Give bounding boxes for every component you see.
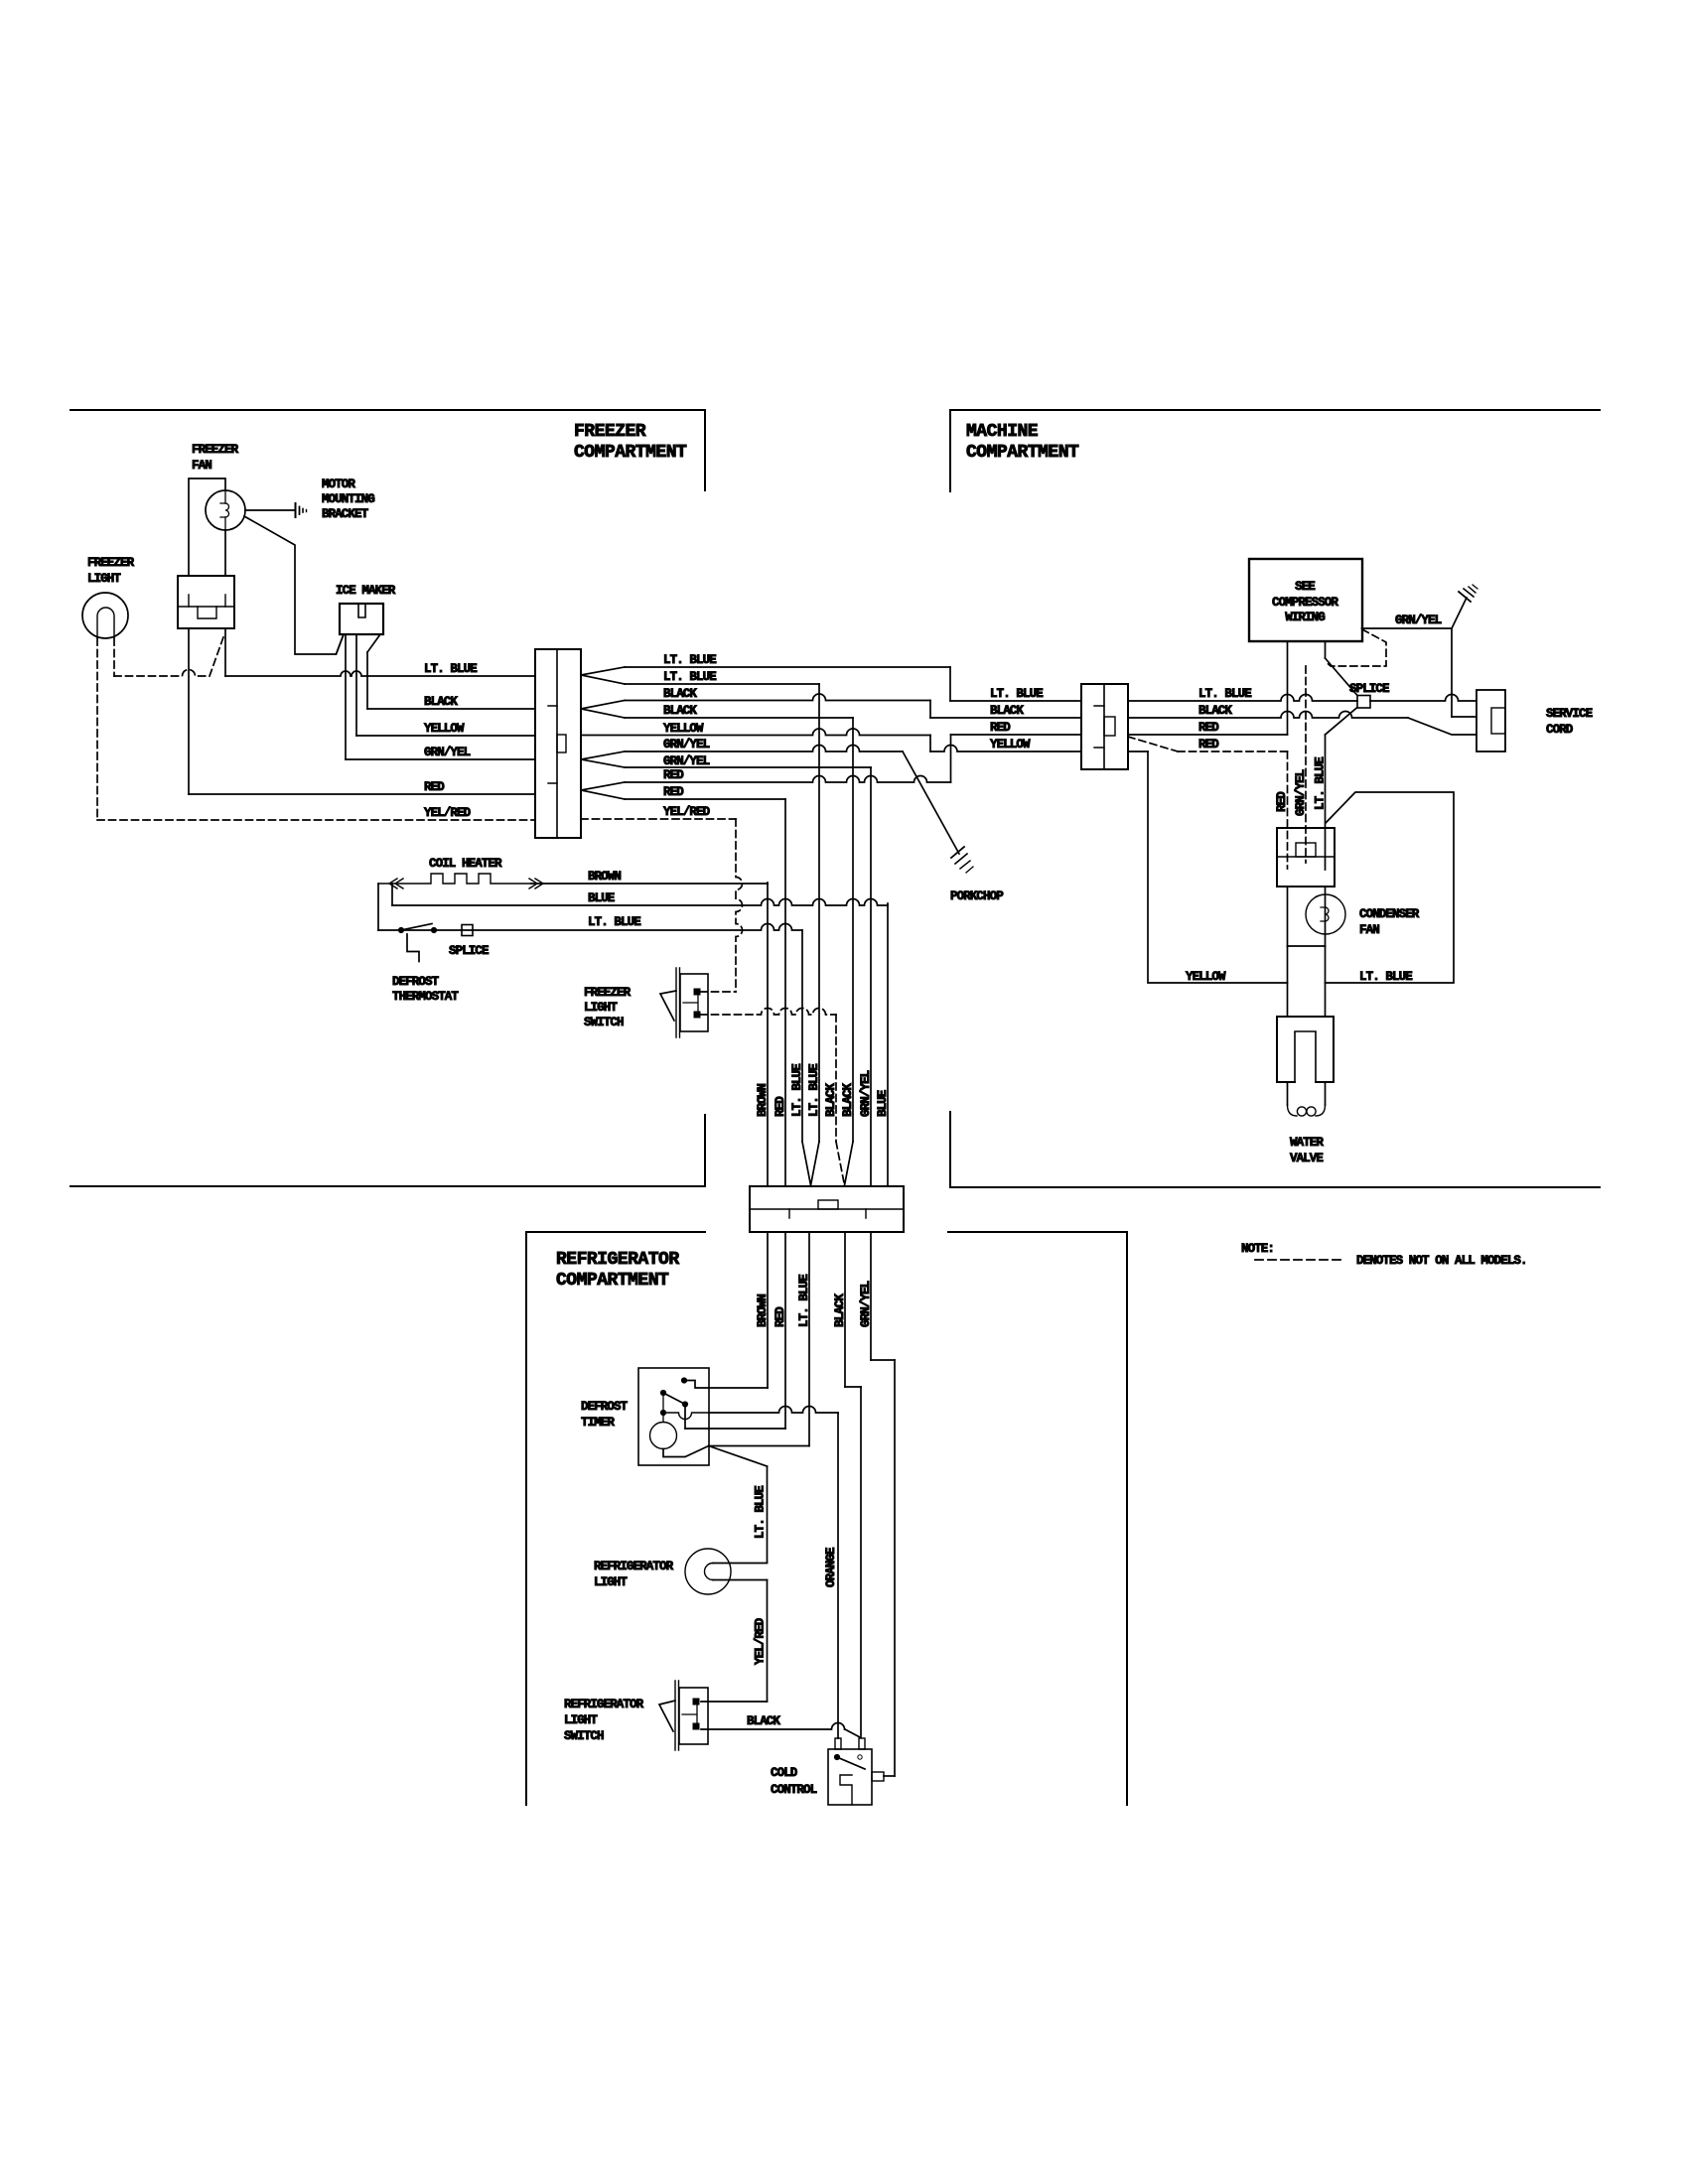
wire BLUE vertical [887,903,889,1186]
svg-text:COIL HEATER: COIL HEATER [429,857,502,871]
svg-text:BROWN: BROWN [588,870,621,884]
svg-text:BROWN: BROWN [756,1295,770,1327]
wire motor frame to ice maker ground pin [244,516,344,654]
svg-text:NOTE:: NOTE: [1241,1242,1274,1256]
dashed GRN/YEL from compressor [1306,629,1386,863]
svg-text:YELLOW: YELLOW [424,722,465,736]
wire ORANGE [837,1413,839,1738]
wire timer contact to ORANGE [663,1407,838,1420]
label FREEZER LIGHT [87,556,135,586]
cold control [828,1738,884,1805]
label COLD CONTROL [771,1766,817,1797]
porkchop ground wire [903,751,959,854]
machine YELLOW wire down [1148,751,1288,983]
ice maker pin to YELLOW row [355,634,357,736]
freezer light switch [660,968,708,1037]
svg-text:LT. BLUE: LT. BLUE [754,1486,768,1539]
wire compressor to splice diagonal [1326,641,1358,696]
svg-text:BLACK: BLACK [990,704,1024,718]
label REFRIGERATOR LIGHT [594,1560,674,1589]
freezer fan connector block [178,576,234,628]
machine RED row [1128,734,1288,736]
machine connector right labels [1198,687,1251,751]
machine dashed RED to condenser [1128,737,1288,869]
svg-text:ORANGE: ORANGE [824,1548,838,1587]
svg-text:GRN/YEL: GRN/YEL [1395,614,1442,627]
defrost timer contacts [660,1378,709,1429]
wire LT. BLUE coil row [378,924,802,930]
svg-text:RED: RED [1198,738,1219,751]
svg-text:BLACK: BLACK [663,704,697,718]
wire motor to mounting bracket [245,509,294,511]
water valve coil [1288,1082,1326,1116]
svg-text:CONTROL: CONTROL [771,1783,817,1797]
freezer compartment border [70,410,705,1186]
label MOTOR MOUNTING BRACKET [322,478,374,521]
svg-text:CONDENSER: CONDENSER [1359,907,1420,921]
svg-text:FAN: FAN [1359,923,1379,937]
wire GRN/YEL lower row [625,766,871,768]
condenser fan return wire [1288,887,1326,946]
svg-text:BLUE: BLUE [588,891,615,905]
svg-text:LT. BLUE: LT. BLUE [663,653,716,667]
svg-text:WATER: WATER [1290,1136,1324,1150]
ice maker pin to GRN/YEL row [345,634,347,759]
svg-text:BLUE: BLUE [876,1090,890,1117]
svg-text:FREEZER: FREEZER [574,422,646,442]
svg-text:DEFROST: DEFROST [392,975,440,989]
wire BLACK dashed vertical [836,1015,845,1185]
wire YELLOW row to machine [581,729,1148,751]
condenser wire labels [1275,757,1328,816]
ice maker ground pin [337,634,345,654]
svg-text:YELLOW: YELLOW [663,722,704,736]
svg-text:RED: RED [1275,791,1289,812]
svg-text:LT. BLUE: LT. BLUE [1359,970,1412,984]
machine bulkhead connector [1081,684,1128,769]
svg-text:LT. BLUE: LT. BLUE [797,1275,811,1327]
wire BLACK pair flag [581,701,625,719]
wire BLUE row [392,884,888,905]
wire splice to condenser LT. BLUE [1326,708,1358,871]
label DEFROST THERMOSTAT [392,975,459,1004]
freezer light circle [82,593,128,638]
wire RED row left [189,793,535,795]
svg-text:SERVICE: SERVICE [1546,707,1593,721]
svg-text:ICE MAKER: ICE MAKER [336,584,396,598]
svg-text:BLACK: BLACK [663,687,697,701]
svg-text:LIGHT: LIGHT [584,1001,618,1015]
labels YELLOW / LT. BLUE bottom [1186,970,1412,984]
svg-text:LT. BLUE: LT. BLUE [663,670,716,684]
wire YEL/RED light to switch [701,1580,768,1703]
svg-text:RED: RED [1198,721,1219,735]
svg-text:RED: RED [663,768,684,782]
svg-text:SPLICE: SPLICE [449,944,489,958]
svg-text:DEFROST: DEFROST [581,1400,629,1414]
wire LT. BLUE vertical 2 [811,684,820,1185]
wire GRN/YEL pair flag [581,751,625,767]
svg-text:FREEZER: FREEZER [87,556,135,570]
dashed wire freezer light to YEL/RED row [96,638,98,820]
svg-text:GRN/YEL: GRN/YEL [663,754,710,768]
refrigerator compartment border [526,1232,1127,1805]
svg-text:DENOTES NOT ON ALL MODELS.: DENOTES NOT ON ALL MODELS. [1356,1254,1527,1268]
wire RED vertical [784,799,786,1186]
service cord block [1477,690,1505,751]
water valve wires [1288,946,1326,1017]
svg-text:RED: RED [663,785,684,799]
svg-text:VALVE: VALVE [1290,1152,1323,1165]
GRN/YEL wire to ground [1362,598,1468,628]
wire LT. BLUE row left [225,671,535,676]
svg-text:GRN/YEL: GRN/YEL [663,738,710,751]
wire GRN/YEL upper row to porkchop [625,746,903,752]
svg-text:GRN/YEL: GRN/YEL [424,746,471,759]
refrigerator light switch [659,1681,708,1750]
wire compressor to RED node [1287,641,1289,735]
note text [1241,1242,1527,1268]
ice maker pin to BLACK row [367,634,380,709]
wire YEL/RED dashed row [97,819,535,821]
svg-text:BLACK: BLACK [747,1714,780,1728]
svg-text:COMPRESSOR: COMPRESSOR [1272,596,1338,610]
label FREEZER LIGHT SWITCH [584,986,632,1029]
ice maker block [340,604,383,634]
svg-text:REFRIGERATOR: REFRIGERATOR [564,1698,644,1711]
label DEFROST TIMER [581,1400,629,1430]
coil heater element row BROWN [378,874,768,888]
svg-text:YELLOW: YELLOW [990,738,1031,751]
wire GRN/YEL vertical [870,767,872,1186]
label FREEZER COMPARTMENT [574,422,687,463]
svg-text:REFRIGERATOR: REFRIGERATOR [594,1560,674,1573]
svg-text:LT. BLUE: LT. BLUE [990,687,1043,701]
svg-text:SPLICE: SPLICE [1349,682,1389,696]
svg-text:BLACK: BLACK [824,1083,838,1117]
label SERVICE CORD [1546,707,1593,737]
wire GRN/YEL row left [346,758,535,760]
condenser outline LT. BLUE loop [1326,792,1455,983]
svg-text:RED: RED [774,1306,787,1327]
dashed YEL/RED wire down to freezer light switch [700,819,743,992]
freezer fan motor circle [206,490,245,530]
machine connector left labels [990,687,1043,751]
svg-text:BLACK: BLACK [841,1083,855,1117]
service cord ground symbol [1459,585,1477,602]
svg-text:SWITCH: SWITCH [584,1016,624,1029]
svg-text:YEL/RED: YEL/RED [424,806,472,820]
wire LT. BLUE to defrost timer motor [709,1232,809,1446]
see compressor wiring box [1249,559,1362,641]
splice square [462,925,473,936]
label REFRIGERATOR LIGHT SWITCH [564,1698,644,1743]
svg-text:GRN/YEL: GRN/YEL [859,1070,873,1117]
svg-text:CORD: CORD [1546,723,1574,737]
svg-text:LIGHT: LIGHT [564,1713,598,1727]
svg-text:GRN/YEL: GRN/YEL [859,1281,873,1327]
porkchop ground symbol [951,847,973,873]
svg-text:FREEZER: FREEZER [584,986,632,1000]
machine compartment border [950,410,1600,1187]
svg-text:LIGHT: LIGHT [87,572,121,586]
label WATER VALVE [1290,1136,1324,1165]
svg-text:RED: RED [424,780,445,794]
wire RED to defrost timer [685,1232,785,1429]
svg-text:LT. BLUE: LT. BLUE [807,1064,821,1117]
wire BLACK switch to cold control [701,1723,860,1738]
wire LT. BLUE lower row [625,683,819,685]
svg-text:SWITCH: SWITCH [564,1729,604,1743]
wire YELLOW row left [356,735,535,737]
svg-text:LT. BLUE: LT. BLUE [1314,757,1328,810]
wire timer motor junction [663,1446,768,1467]
svg-text:LT. BLUE: LT. BLUE [1198,687,1251,701]
svg-text:LIGHT: LIGHT [594,1575,628,1589]
lower vertical wire labels [756,1275,873,1327]
svg-text:FREEZER: FREEZER [192,443,239,457]
wire GRN/YEL to service cord [1452,628,1477,717]
freezer fan motor loop wires [189,478,225,576]
dashed wire freezer light to fan connector (LT. BLUE) [114,634,224,676]
wire RED upper row to machine [625,735,1081,782]
wire LT. BLUE to refrigerator light [767,1466,769,1563]
wire BLACK row left [367,708,535,710]
wire LT. BLUE upper row to machine [625,667,1081,701]
label FREEZER FAN [192,443,239,473]
svg-text:MOTOR: MOTOR [322,478,355,491]
svg-text:LT. BLUE: LT. BLUE [424,662,477,676]
svg-text:COMPARTMENT: COMPARTMENT [574,443,687,463]
machine BLACK row to service cord [1128,712,1477,736]
wire BROWN to defrost timer [709,1232,768,1388]
label SEE COMPRESSOR WIRING [1272,580,1338,624]
refrigerator bulkhead connector [750,1186,904,1232]
svg-text:BRACKET: BRACKET [322,507,369,521]
svg-text:REFRIGERATOR: REFRIGERATOR [556,1250,679,1270]
condenser fan circle [1306,887,1345,946]
svg-text:PORKCHOP: PORKCHOP [950,889,1003,903]
freezer fan pin wire to RED row [188,628,190,794]
splice square [1357,696,1370,709]
wire LT. BLUE vertical 1 [802,930,811,1185]
svg-text:RED: RED [774,1096,787,1117]
defrost thermostat [398,924,436,962]
svg-text:RED: RED [990,721,1011,735]
condenser fan terminal block [1277,828,1335,887]
label REFRIGERATOR COMPARTMENT [556,1250,679,1291]
svg-text:LT. BLUE: LT. BLUE [790,1064,804,1117]
svg-text:MACHINE: MACHINE [966,422,1039,442]
vertical wire labels [756,1064,890,1117]
machine LT. BLUE row [1128,695,1477,702]
svg-text:BLACK: BLACK [424,695,458,709]
water valve connector [1277,1017,1334,1082]
svg-text:SEE: SEE [1295,580,1315,594]
svg-text:LT. BLUE: LT. BLUE [588,915,640,929]
svg-text:BLACK: BLACK [1198,704,1232,718]
svg-text:COMPARTMENT: COMPARTMENT [966,443,1079,463]
wire GRN/YEL to cold control [871,1232,895,1776]
label CONDENSER FAN [1359,907,1420,937]
dashed wire switch to BLACK vertical [700,1009,836,1016]
svg-text:COLD: COLD [771,1766,798,1780]
wire LT. BLUE pair flag [581,667,625,684]
svg-text:BROWN: BROWN [756,1084,770,1117]
defrost timer box [638,1368,709,1465]
svg-text:WIRING: WIRING [1285,611,1325,624]
wire BLACK lower row [625,717,853,719]
svg-text:TIMER: TIMER [581,1416,615,1430]
svg-text:COMPARTMENT: COMPARTMENT [556,1271,669,1291]
freezer fan pin wire to LT. BLUE row [224,628,226,676]
refrigerator light circle [685,1549,768,1594]
wire RED lower row [625,798,785,800]
label MACHINE COMPARTMENT [966,422,1079,463]
wire BROWN vertical [767,883,769,1186]
svg-text:YEL/RED: YEL/RED [663,805,711,819]
svg-text:YEL/RED: YEL/RED [754,1617,768,1665]
coil heater bracket [377,884,379,930]
svg-text:YELLOW: YELLOW [1186,970,1226,984]
svg-text:BLACK: BLACK [833,1294,847,1327]
defrost timer motor circle [650,1413,677,1449]
wire YEL/RED dashed row right [581,818,736,820]
wire BLACK to cold control [845,1232,861,1737]
svg-text:MOUNTING: MOUNTING [322,492,374,506]
wire RED pair flag [581,782,625,799]
svg-text:FAN: FAN [192,459,211,473]
svg-text:GRN/YEL: GRN/YEL [1294,769,1308,816]
wire BLACK upper row to machine [625,694,1081,718]
freezer bulkhead connector [535,649,581,838]
wire BLACK vertical [845,718,854,1185]
svg-text:THERMOSTAT: THERMOSTAT [392,990,459,1004]
motor mounting bracket ground symbol [296,503,307,517]
